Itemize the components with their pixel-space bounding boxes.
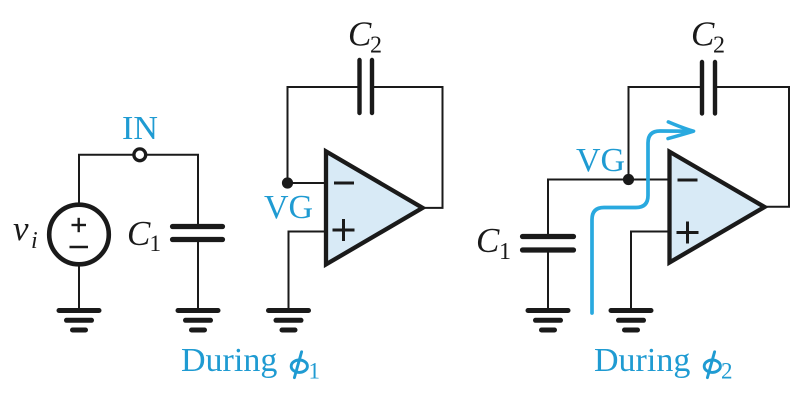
label C2 (348, 15, 382, 59)
op-amp U1 (326, 151, 423, 264)
wire C1 top to node VG (right) (548, 180, 629, 235)
wire C2 to op-amp output (right) (717, 87, 789, 207)
svg-text:During: During (181, 342, 277, 379)
node VG junction dot (282, 177, 293, 188)
wire source top to IN node (79, 155, 133, 205)
svg-text:2: 2 (370, 33, 382, 59)
svg-text:VG: VG (264, 189, 313, 226)
wire C2 to op-amp output (374, 87, 443, 208)
svg-text:2: 2 (721, 359, 733, 384)
svg-text:IN: IN (122, 110, 158, 147)
ground under source (59, 311, 99, 331)
svg-text:VG: VG (576, 142, 625, 179)
wire node up to C2 (288, 87, 358, 183)
node VG junction dot (right) (623, 174, 634, 185)
svg-text:v: v (13, 209, 29, 248)
wire IN node to C1 (147, 155, 198, 225)
capacitor C2 (360, 60, 373, 113)
op-amp U2 (670, 152, 765, 263)
wire noninverting input to ground (right) (631, 232, 670, 310)
wire node up to C2 (right) (629, 87, 701, 180)
capacitor C2 (right) (702, 62, 715, 114)
svg-text:C: C (348, 15, 372, 54)
ground under C1 (right) (528, 311, 568, 331)
wire node to inverting input (288, 182, 327, 184)
capacitor C1 (173, 227, 223, 240)
charge transfer arrow (592, 122, 694, 313)
svg-text:C: C (691, 15, 715, 54)
svg-text:2: 2 (713, 33, 725, 59)
wire C1 to ground (197, 242, 199, 309)
wire noninverting input to ground (289, 232, 327, 310)
ground under C1 (178, 311, 218, 331)
label C1 (right) (476, 221, 511, 265)
svg-text:C: C (127, 214, 151, 253)
label C1 (127, 214, 161, 256)
svg-text:1: 1 (309, 359, 321, 384)
label During phi2 (594, 342, 733, 384)
node IN (open circle) (134, 149, 146, 161)
wire source bottom to ground (78, 265, 80, 310)
svg-text:During: During (594, 342, 690, 379)
wire node to inverting input (right) (629, 179, 670, 181)
capacitor C1 (right) (523, 237, 574, 251)
label C2 (right) (691, 15, 725, 59)
label During phi1 (181, 342, 320, 384)
ground under op-amp U2 input (611, 311, 651, 331)
wire C1 bottom to ground (right) (547, 253, 549, 310)
svg-text:C: C (476, 221, 500, 260)
svg-text:1: 1 (150, 231, 162, 256)
svg-text:1: 1 (499, 239, 511, 265)
svg-text:i: i (31, 228, 38, 254)
voltage source vi (49, 205, 109, 265)
ground under op-amp U1 input (269, 311, 309, 331)
